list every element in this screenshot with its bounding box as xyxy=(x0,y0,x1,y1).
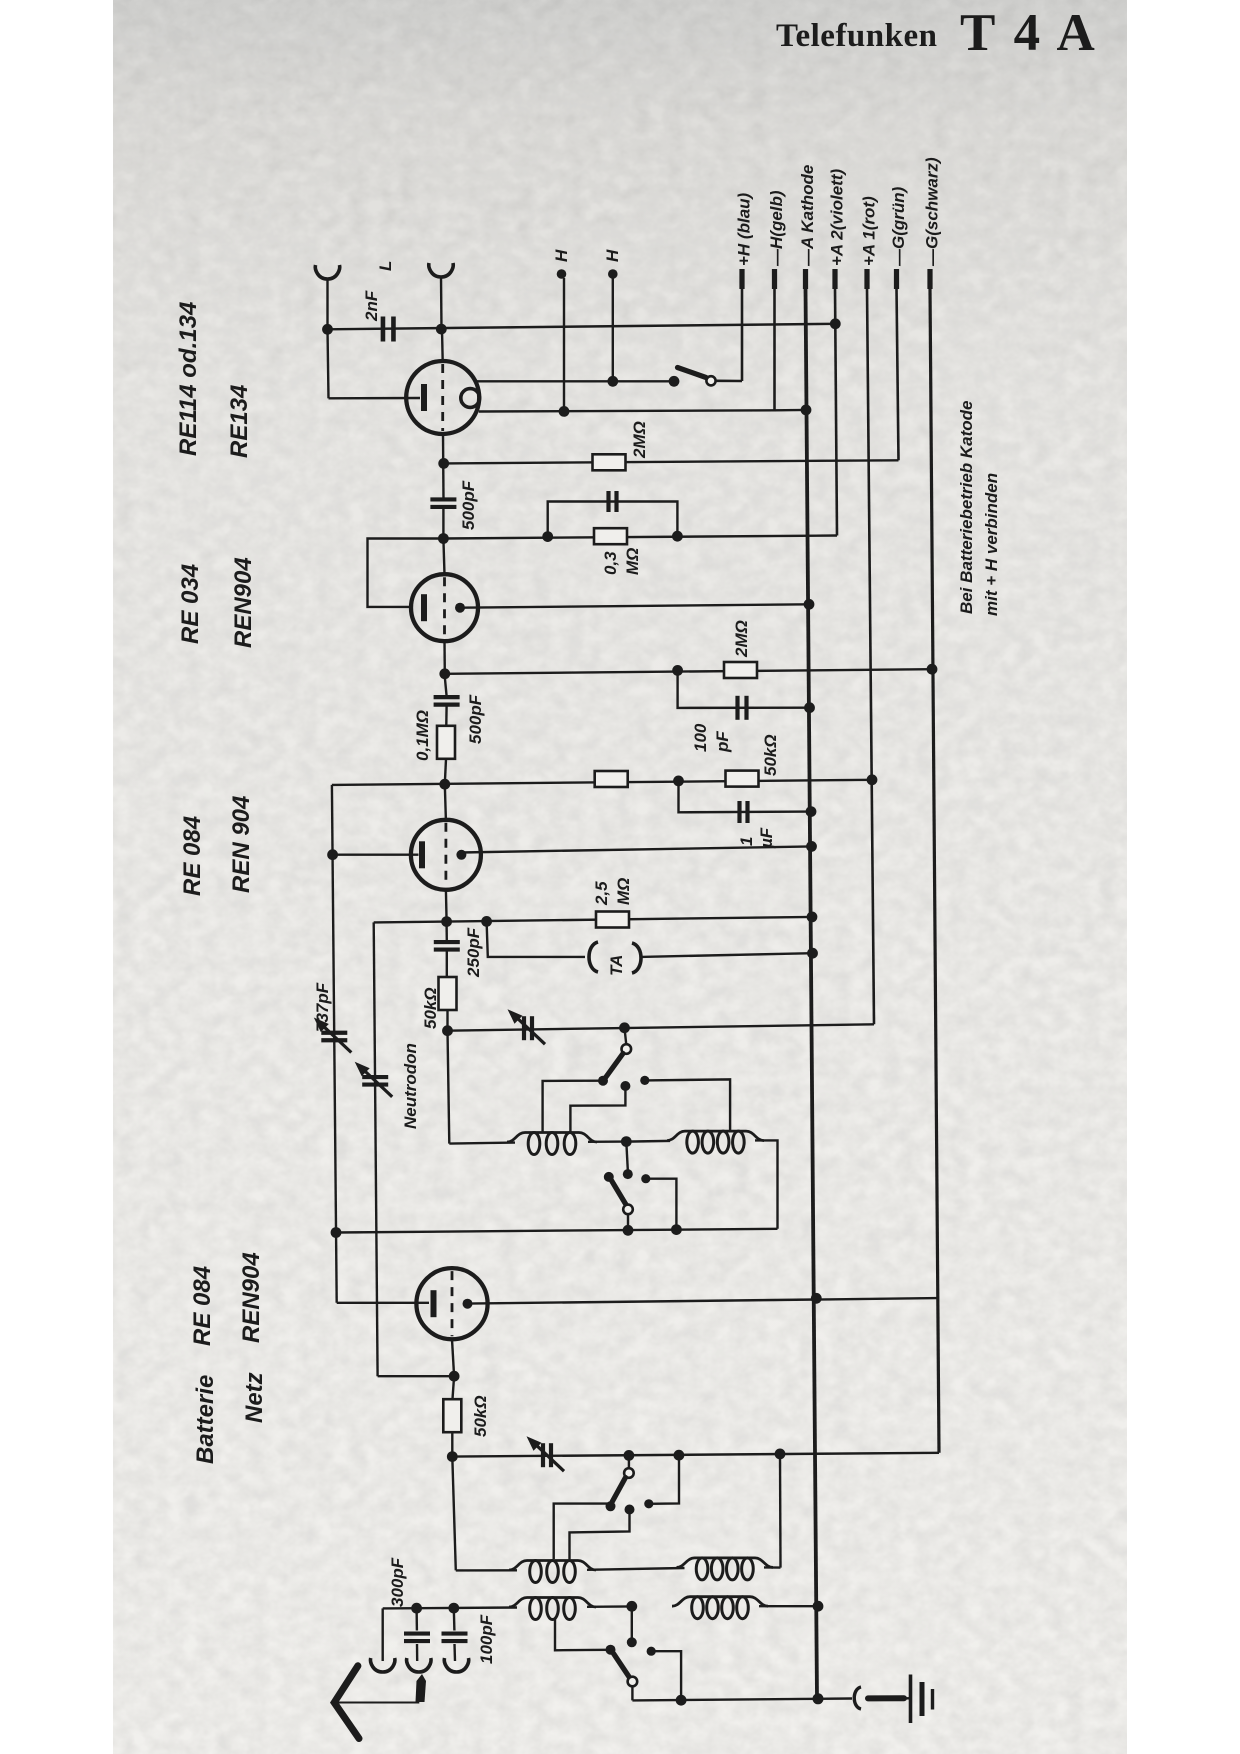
wire +A1 feed xyxy=(448,1024,875,1030)
node S2 top xyxy=(626,1601,637,1612)
node heater -A xyxy=(801,405,812,416)
terminal +H (blau) xyxy=(739,269,744,289)
wire 500pF2 to 0.1M xyxy=(445,706,448,726)
svg-text:0,3: 0,3 xyxy=(601,551,620,575)
svg-text:—G(grün): —G(grün) xyxy=(889,186,908,267)
wire pivot B down xyxy=(627,1214,629,1230)
wire +A1 bus xyxy=(867,288,874,1024)
node 50k +A1 xyxy=(867,774,878,785)
wire 50k anode line xyxy=(332,780,872,785)
contact B top xyxy=(623,1169,633,1179)
wire T1 to T2 primary xyxy=(587,1568,685,1570)
node 100pF xyxy=(448,1603,459,1614)
switch S0 lever xyxy=(678,368,707,378)
svg-text:µF: µF xyxy=(757,827,776,849)
svg-text:—G(schwarz): —G(schwarz) xyxy=(923,157,942,267)
svg-text:RE 034: RE 034 xyxy=(177,564,204,644)
node V3 anode -A xyxy=(806,841,817,852)
wire 100pF branch xyxy=(678,670,810,708)
wire 100pF to contact xyxy=(453,1644,456,1661)
capacitor 100pF xyxy=(735,696,739,720)
node antenna to +A2 bus xyxy=(830,318,841,329)
svg-text:500pF: 500pF xyxy=(466,694,485,744)
node T2 sec -A xyxy=(813,1601,824,1612)
node 2M left xyxy=(672,665,683,676)
svg-text:L: L xyxy=(376,261,395,271)
jack phone xyxy=(854,1687,861,1709)
coil T2 secondary xyxy=(672,1597,768,1607)
jack TA xyxy=(589,942,598,972)
wire V4 anode xyxy=(468,1298,937,1304)
resistor 50k (V3) xyxy=(439,977,457,1010)
wire antenna A2 stem xyxy=(440,277,443,329)
switch S2 xyxy=(631,1606,633,1638)
terminal -G (schwarz) xyxy=(927,269,932,289)
svg-text:2,5: 2,5 xyxy=(592,881,611,906)
tube V4 RE084 (Batterie/Netz) xyxy=(416,1268,487,1339)
capacitor 300pF xyxy=(404,1631,430,1635)
svg-text:REN 904: REN 904 xyxy=(228,796,255,893)
wire 50k to bottom node xyxy=(451,1432,453,1456)
resistor 2.5M xyxy=(596,912,629,928)
svg-text:250pF: 250pF xyxy=(464,927,483,978)
switch S1 xyxy=(628,1455,630,1468)
terminal -G (gruen) xyxy=(894,269,899,289)
node 2M -G schwarz xyxy=(927,664,938,675)
capacitor 1uF xyxy=(737,801,741,823)
node H2 xyxy=(607,376,618,387)
node TA -A xyxy=(807,948,818,959)
wire 250pF to 50k xyxy=(446,950,448,977)
svg-text:RE 084: RE 084 xyxy=(179,816,206,896)
wire V3 bottom stem xyxy=(445,890,448,922)
wire plug to pin xyxy=(334,1702,419,1704)
tube V1 RE114 xyxy=(406,361,479,434)
terminal -A Kathode xyxy=(803,269,808,289)
contact B right xyxy=(641,1174,650,1183)
wire 50k to node xyxy=(446,1010,448,1031)
wire V2 top stem xyxy=(443,539,444,575)
wire +H to switch xyxy=(716,379,742,382)
svg-text:300pF: 300pF xyxy=(388,1557,407,1607)
wire 100pF lead xyxy=(453,1608,456,1630)
svg-text:Telefunken: Telefunken xyxy=(776,18,938,54)
svg-text:100pF: 100pF xyxy=(477,1614,496,1664)
coil T1 secondary xyxy=(509,1598,596,1608)
capacitor 250pF xyxy=(434,940,460,944)
trimmer 737pF xyxy=(321,1031,347,1035)
node V1 grid leak tap xyxy=(438,458,449,469)
wire A1 to grid V1 xyxy=(328,329,329,398)
resistor 2M (V2) xyxy=(724,662,757,678)
capacitor 2nF xyxy=(381,317,386,342)
wire S1 right loop xyxy=(649,1455,679,1504)
svg-text:T 4 A: T 4 A xyxy=(960,4,1098,62)
wire tap L1b xyxy=(570,1086,625,1133)
node S1 right loop xyxy=(674,1450,685,1461)
wire -H bus xyxy=(773,288,776,411)
node 300pF xyxy=(411,1603,422,1614)
wire V1 top stem xyxy=(441,329,444,361)
coil RF L1 xyxy=(507,1133,597,1143)
node V3 grid top xyxy=(439,779,450,790)
terminal -H (gelb) xyxy=(772,269,777,289)
wire RF bottom return xyxy=(336,1229,778,1233)
coil RF L2 xyxy=(667,1131,764,1141)
resistor 50k (V2) xyxy=(726,771,759,787)
node return 2 xyxy=(623,1225,634,1236)
svg-text:+A 1(rot): +A 1(rot) xyxy=(860,196,879,266)
resistor 0.1M xyxy=(437,726,455,759)
wire T1 sec to node xyxy=(587,1605,633,1608)
svg-text:+A 2(violett): +A 2(violett) xyxy=(828,169,847,266)
wire heater bottom to -A xyxy=(775,409,807,412)
wire 300pF lead xyxy=(415,1608,418,1630)
svg-text:+H (blau): +H (blau) xyxy=(735,192,754,266)
node antenna A1 xyxy=(322,324,333,335)
svg-text:pF: pF xyxy=(713,731,732,753)
contact A mid xyxy=(620,1081,630,1091)
svg-text:—A Kathode: —A Kathode xyxy=(798,165,817,267)
wire contact B right loop xyxy=(646,1179,677,1230)
wire -A Kathode bus xyxy=(806,288,818,1699)
wire to 250pF xyxy=(445,925,448,941)
trimmer (AF) xyxy=(541,1443,545,1467)
wire left cap branch xyxy=(382,1608,384,1661)
svg-text:500pF: 500pF xyxy=(459,480,478,530)
node 100pF -A xyxy=(804,702,815,713)
svg-text:50kΩ: 50kΩ xyxy=(761,734,780,776)
resistor 50k (V4) xyxy=(443,1399,461,1432)
node bottom main left xyxy=(447,1451,458,1462)
node switch B top xyxy=(621,1136,632,1147)
wire left bus 1 xyxy=(332,785,337,1303)
antenna jack A1 xyxy=(315,265,339,279)
wire V1 bottom stem xyxy=(442,434,445,500)
wire tap L2 xyxy=(645,1079,730,1132)
wire 500pF to node xyxy=(442,507,444,539)
node V3 cathode xyxy=(441,916,452,927)
anode ring V1 xyxy=(461,389,480,408)
wire T1 sec tap xyxy=(555,1619,607,1651)
wire tap L1a xyxy=(543,1081,603,1133)
wire T2 primary right xyxy=(764,1566,781,1569)
contact S1 tip xyxy=(606,1501,616,1511)
wire to 500pF2 xyxy=(445,677,447,696)
tube V3 RE084 xyxy=(411,820,481,890)
wire grid V1 xyxy=(329,397,421,400)
terminal H1 xyxy=(557,269,567,279)
wire 1uF branch xyxy=(679,781,812,812)
wire V4 to 50k xyxy=(453,1376,455,1399)
contact A tip xyxy=(598,1076,608,1086)
node left bus 1 bottom xyxy=(331,1227,342,1238)
svg-text:0,1MΩ: 0,1MΩ xyxy=(413,710,432,761)
node ground -A xyxy=(813,1693,824,1704)
resistor 0.3M xyxy=(594,528,627,544)
svg-text:2MΩ: 2MΩ xyxy=(732,620,751,658)
svg-text:MΩ: MΩ xyxy=(614,878,633,905)
svg-text:1: 1 xyxy=(737,837,756,846)
contact A right xyxy=(640,1076,649,1085)
wire V3 anode xyxy=(461,846,812,852)
wire S2 pivot down xyxy=(631,1686,633,1700)
switch S0 pivot xyxy=(706,376,715,385)
wire antenna caps row xyxy=(383,1606,517,1609)
svg-text:H: H xyxy=(603,249,622,262)
node V4 anode -A xyxy=(811,1293,822,1304)
wire V3 top stem xyxy=(445,784,446,820)
wire H1 stem xyxy=(563,278,565,411)
terminal H2 xyxy=(608,269,618,279)
node switch S1 top xyxy=(624,1450,635,1461)
contact S2 top xyxy=(627,1637,637,1647)
wire 2.5M line xyxy=(447,917,812,922)
contact S2 right xyxy=(647,1647,656,1656)
svg-text:REN904: REN904 xyxy=(230,557,257,648)
wire TA to -A xyxy=(641,953,813,957)
wire V4 bottom stem xyxy=(452,1339,454,1376)
antenna jack A2 xyxy=(429,263,453,277)
wire V2 grid loop xyxy=(368,539,444,607)
svg-text:50kΩ: 50kΩ xyxy=(471,1395,490,1437)
trimmer (RF) xyxy=(522,1016,526,1040)
wire to T1 primary xyxy=(456,1569,517,1571)
svg-text:RE134: RE134 xyxy=(226,385,253,458)
svg-text:RE 084: RE 084 xyxy=(189,1266,216,1346)
node RC left xyxy=(542,531,553,542)
node switch A top xyxy=(619,1022,630,1033)
node 1uF -A xyxy=(806,806,817,817)
svg-text:50kΩ: 50kΩ xyxy=(421,987,440,1029)
svg-text:100: 100 xyxy=(691,723,710,752)
wire antenna line xyxy=(328,324,836,330)
wire V1 heater bottom xyxy=(479,410,775,411)
node V2 grid xyxy=(438,533,449,544)
wire 2M grid leak V1 xyxy=(444,460,899,463)
node 2.5M -A xyxy=(807,912,818,923)
wire to ground symbol xyxy=(904,1697,909,1699)
wire bottom main xyxy=(452,1453,939,1457)
wire V3 cathode left xyxy=(374,920,447,923)
wire S1 tip to T1 tap a xyxy=(554,1504,611,1559)
wire L1 to L2 xyxy=(588,1140,626,1143)
wire V2 anode xyxy=(460,604,809,607)
wire ground line xyxy=(632,1699,852,1701)
wire T2 top right down xyxy=(779,1454,782,1568)
wire left bus 2 to V4 cathode xyxy=(378,1375,455,1377)
node V4 cathode xyxy=(449,1371,460,1382)
wire L2 right loop xyxy=(755,1140,778,1228)
svg-text:TA: TA xyxy=(607,955,626,976)
svg-text:RE114 od.134: RE114 od.134 xyxy=(175,302,202,456)
wire antenna A1 stem xyxy=(326,279,328,329)
wire V1 heater top xyxy=(476,380,675,382)
socket contact 2 xyxy=(407,1658,431,1672)
capacitor 500pF (V1-V2) xyxy=(430,497,456,501)
wire 0.3M cap loop xyxy=(548,502,678,537)
svg-text:2MΩ: 2MΩ xyxy=(630,421,649,459)
terminal +A2 (violett) xyxy=(832,269,837,289)
wire -G gruen bus xyxy=(897,288,899,460)
wire TA branch xyxy=(487,921,585,957)
contact S2 tip xyxy=(606,1645,616,1655)
contact S1 right xyxy=(644,1499,653,1508)
wire grid leak V2 to +A2 xyxy=(443,536,837,539)
socket contact 3 xyxy=(444,1658,468,1672)
capacitor 100pF (antenna) xyxy=(442,1631,468,1635)
svg-text:2nF: 2nF xyxy=(362,290,381,322)
node 50k mid xyxy=(673,776,684,787)
node V3 grid tap xyxy=(327,849,338,860)
node return 1 xyxy=(671,1224,682,1235)
capacitor (parallel 0.3M) xyxy=(606,491,610,512)
node antenna A2 xyxy=(436,324,447,335)
trimmer Neutrodon xyxy=(362,1075,388,1079)
plug pin xyxy=(416,1674,427,1702)
tube V2 RE034 xyxy=(411,574,478,641)
wire 0.1M to node xyxy=(445,759,446,784)
node H1 xyxy=(559,406,570,417)
svg-text:737pF: 737pF xyxy=(313,982,332,1032)
terminal +A1 (rot) xyxy=(864,269,869,289)
wire V4 grid xyxy=(337,1302,429,1304)
node +A1 line left xyxy=(442,1025,453,1036)
capacitor 500pF (V2-V3) xyxy=(434,695,460,699)
wire +A2 bus xyxy=(835,288,837,536)
mains plug arrow xyxy=(334,1666,359,1739)
svg-text:Netz: Netz xyxy=(241,1372,268,1423)
svg-text:H: H xyxy=(552,249,571,262)
coil T2 primary xyxy=(677,1558,774,1568)
svg-text:Bei Batteriebetrieb Katode: Bei Batteriebetrieb Katode xyxy=(957,401,976,615)
ground symbol xyxy=(909,1675,913,1724)
svg-text:REN904: REN904 xyxy=(238,1252,265,1343)
wire left down to T1 xyxy=(452,1457,456,1571)
wire -G schwarz bus xyxy=(930,288,939,1453)
socket contact 1 xyxy=(371,1658,395,1672)
node RC right xyxy=(672,531,683,542)
switch B xyxy=(626,1142,628,1170)
svg-text:—H(gelb): —H(gelb) xyxy=(767,190,786,267)
wire V2 bottom stem xyxy=(443,641,446,674)
node V2 anode -A xyxy=(804,599,815,610)
wire S2 right loop xyxy=(651,1651,681,1700)
contact S1 mid xyxy=(625,1505,635,1515)
wire node to L2 xyxy=(626,1140,670,1143)
wire 300pF to contact xyxy=(416,1644,419,1661)
wire down to coil xyxy=(448,1031,450,1144)
wire S1 mid to T1 tap b xyxy=(570,1510,630,1560)
node T2 top feed xyxy=(775,1449,786,1460)
wire to RF coil 1 xyxy=(449,1143,515,1144)
svg-text:mit + H verbinden: mit + H verbinden xyxy=(982,473,1001,616)
switch A xyxy=(625,1028,627,1044)
resistor 2M (V1) xyxy=(593,454,626,470)
node switch S0 xyxy=(669,376,680,387)
node TA branch xyxy=(481,916,492,927)
svg-text:Batterie: Batterie xyxy=(192,1375,219,1464)
wire 2M (V2) line xyxy=(445,669,932,674)
coil T1 primary xyxy=(509,1561,596,1571)
wire V3 grid xyxy=(333,854,419,856)
wire left bus 2 xyxy=(374,922,378,1376)
contact B tip xyxy=(604,1172,614,1182)
resistor (unlabeled) xyxy=(595,771,628,787)
svg-text:Neutrodon: Neutrodon xyxy=(401,1043,420,1129)
node V2 cathode xyxy=(439,668,450,679)
svg-text:MΩ: MΩ xyxy=(623,548,642,575)
node S2 ground xyxy=(676,1695,687,1706)
wire H2 stem xyxy=(612,278,614,381)
wire T2 sec to -A xyxy=(759,1605,818,1607)
wire +H bus xyxy=(741,288,744,381)
